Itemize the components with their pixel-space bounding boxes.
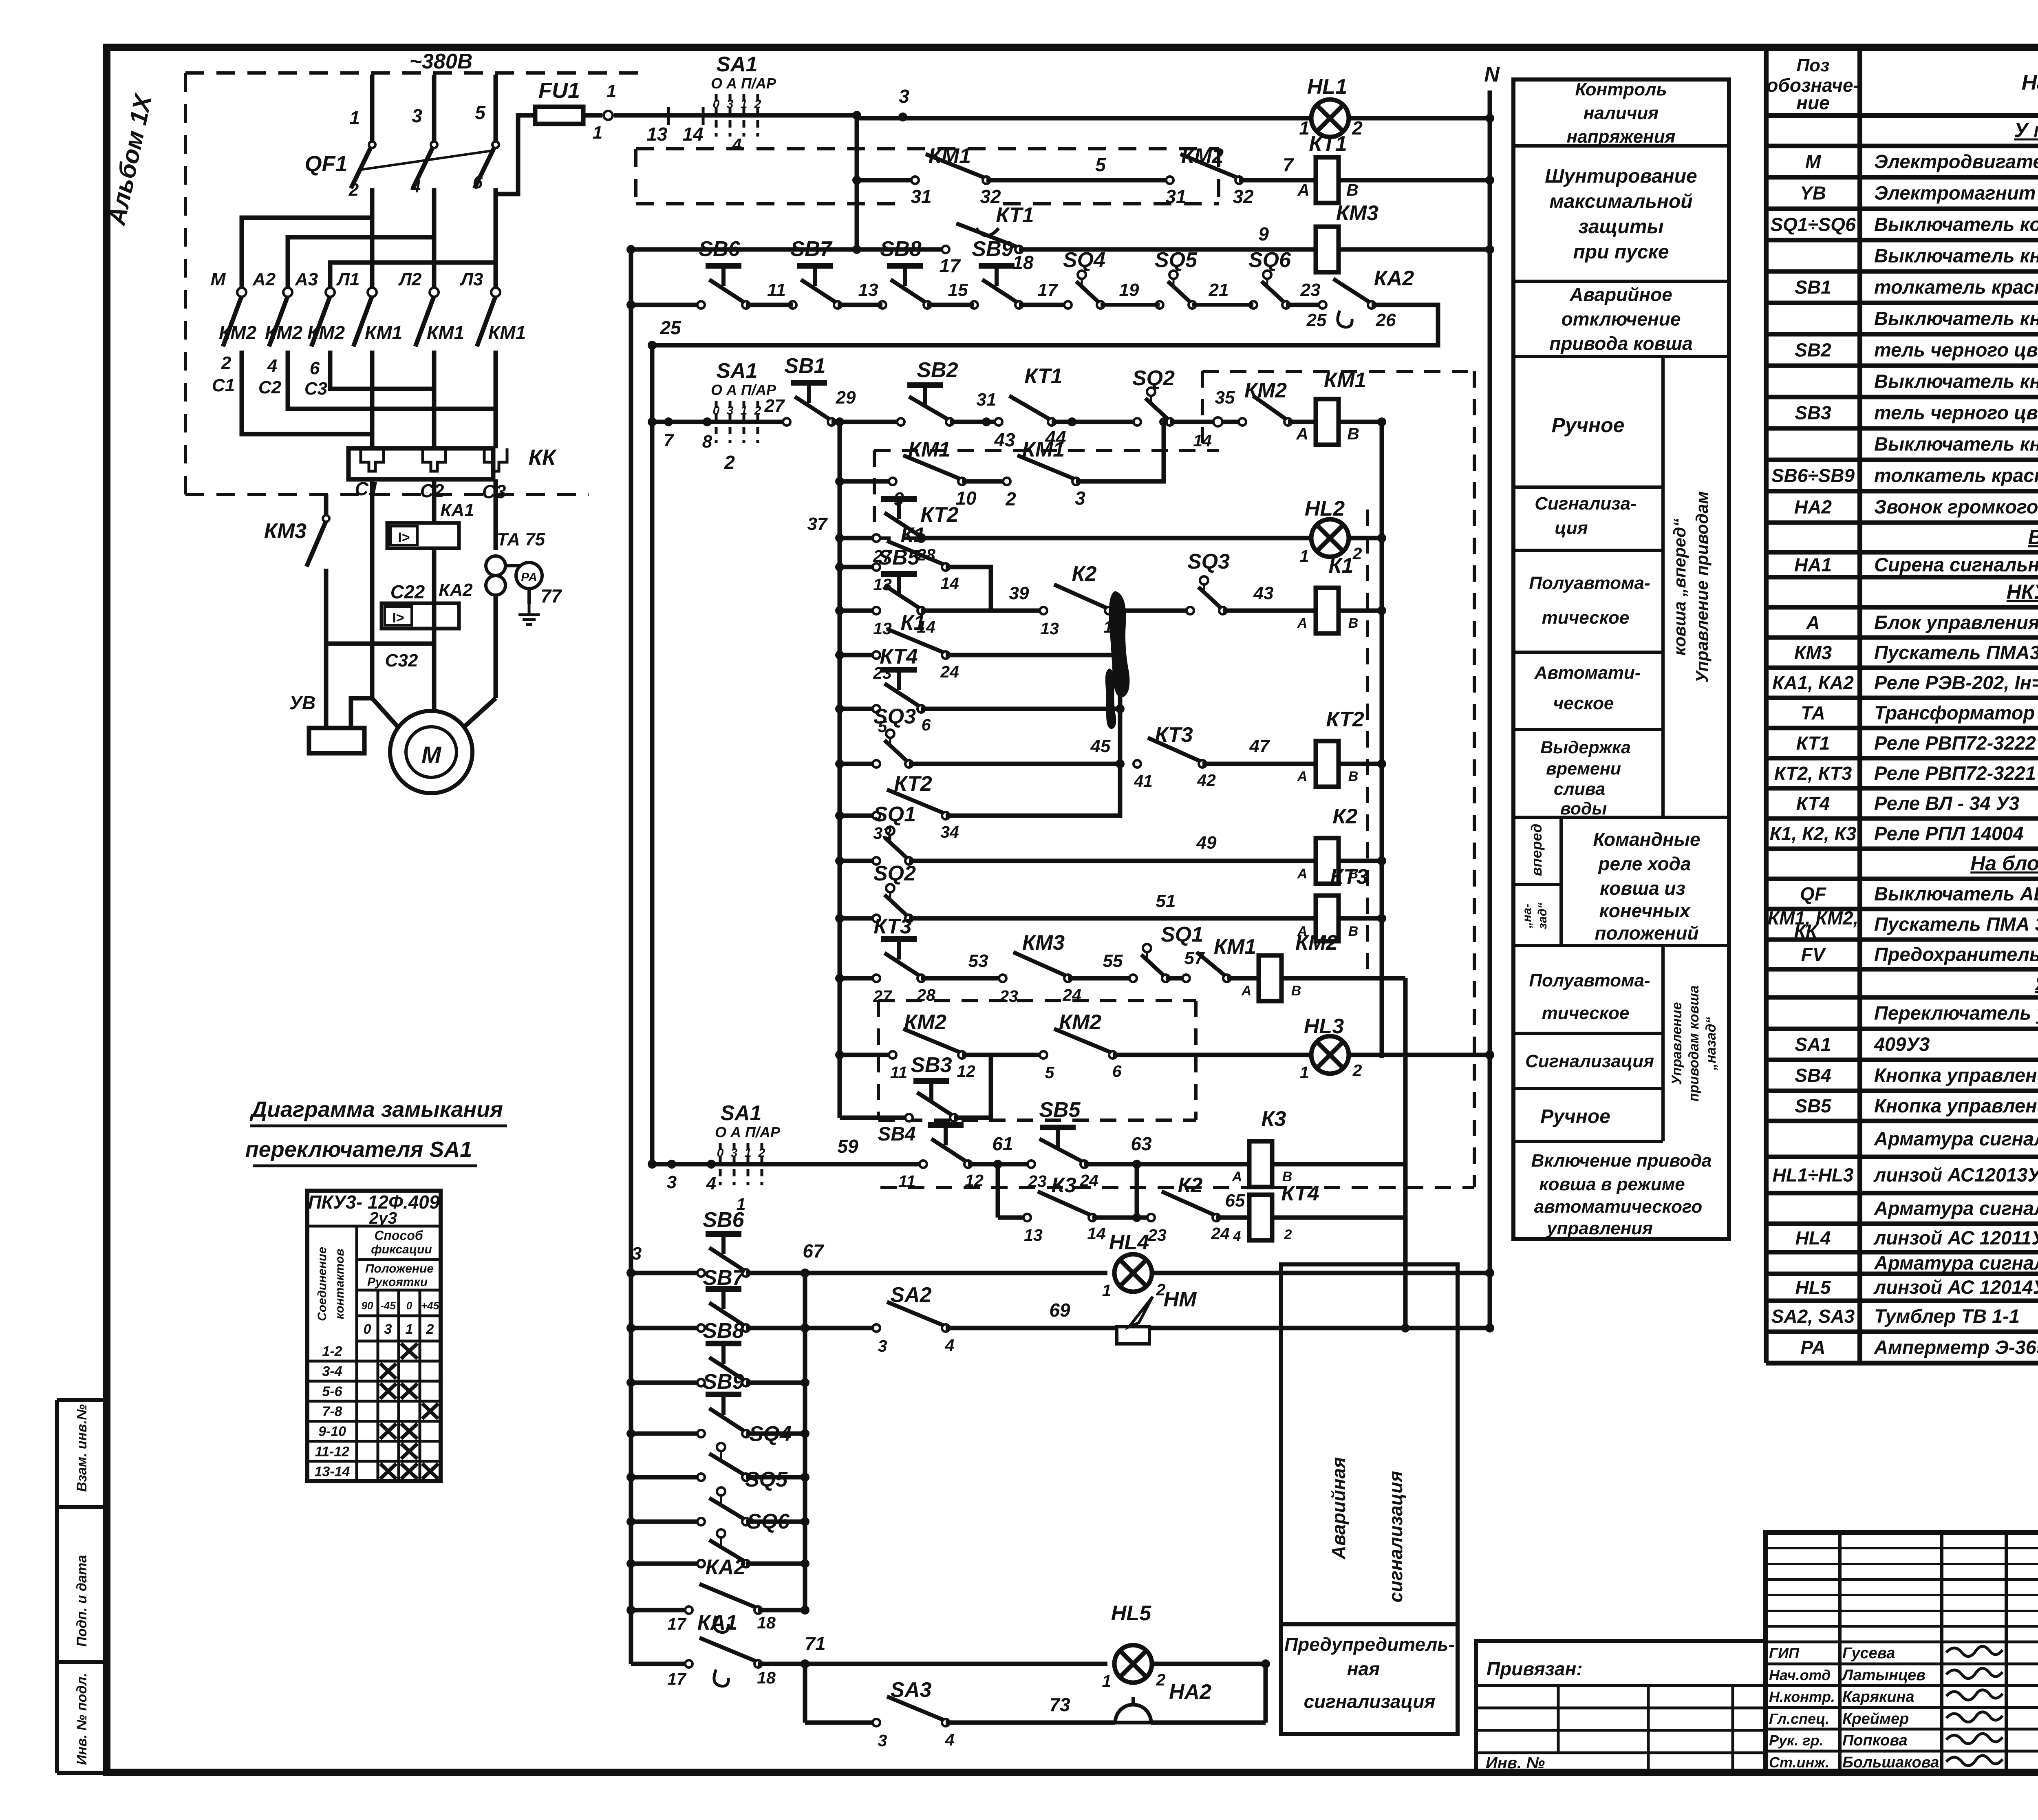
svg-text:О А П/АР: О А П/АР <box>715 1124 781 1141</box>
svg-text:4: 4 <box>267 356 277 376</box>
svg-text:приводам ковша: приводам ковша <box>1686 986 1702 1102</box>
svg-text:18: 18 <box>1012 252 1034 273</box>
svg-text:HL1÷HL3: HL1÷HL3 <box>1772 1165 1853 1186</box>
svg-text:SQ5: SQ5 <box>745 1468 788 1491</box>
svg-text:А: А <box>1297 769 1308 784</box>
svg-text:FV: FV <box>1801 944 1826 965</box>
svg-text:слива: слива <box>1554 779 1605 799</box>
svg-text:1: 1 <box>349 107 360 128</box>
alarm box predupreditelnaya <box>1281 1624 1458 1734</box>
svg-text:6: 6 <box>922 715 931 734</box>
svg-text:0: 0 <box>406 1299 412 1312</box>
svg-text:23: 23 <box>1300 280 1321 300</box>
svg-text:КТ2, КТ3: КТ2, КТ3 <box>1774 763 1852 784</box>
svg-text:51: 51 <box>1156 891 1176 911</box>
svg-text:линзой АС 12011У2: линзой АС 12011У2 <box>1873 1227 2038 1249</box>
svg-text:3: 3 <box>632 1244 642 1264</box>
svg-text:SQ2: SQ2 <box>1132 366 1175 390</box>
rung HL5: KA1 contact <box>631 1662 689 1666</box>
manual control rung: SA1 SB1 SB2 KT1 SQ2 KM2 -> KM1 coil <box>652 420 787 424</box>
svg-text:11: 11 <box>890 1063 908 1082</box>
svg-text:SQ1: SQ1 <box>873 803 916 826</box>
svg-text:КМ1: КМ1 <box>427 322 464 343</box>
svg-text:Предохранитель ППТ-10У3: Предохранитель ППТ-10У3 <box>1874 944 2038 965</box>
svg-text:N: N <box>1484 63 1500 86</box>
svg-text:2: 2 <box>426 1321 434 1337</box>
svg-text:Л1: Л1 <box>336 269 360 289</box>
SA1 closure table <box>307 1191 441 1481</box>
svg-text:7: 7 <box>1283 154 1294 175</box>
svg-text:17: 17 <box>1038 280 1059 300</box>
svg-text:Латынцев: Латынцев <box>1841 1667 1926 1684</box>
svg-text:КА2: КА2 <box>706 1555 746 1579</box>
svg-text:КТ1: КТ1 <box>1309 132 1347 156</box>
svg-text:КА1: КА1 <box>440 500 474 520</box>
relay contact KA2 self-hold <box>1318 300 1327 309</box>
svg-text:69: 69 <box>1049 1299 1070 1321</box>
svg-text:0: 0 <box>717 1146 724 1160</box>
selector SA1 contacts on top line <box>715 94 718 137</box>
svg-text:сигнализация: сигнализация <box>1385 1471 1406 1603</box>
parts table header <box>1766 113 2038 118</box>
svg-text:6: 6 <box>1112 1062 1122 1081</box>
rotated label upravlenie nazad <box>1661 946 1665 1141</box>
toggle switch SA2 <box>873 1324 880 1332</box>
svg-text:Соединение: Соединение <box>315 1247 329 1321</box>
svg-text:Сигнализация: Сигнализация <box>1525 1051 1654 1071</box>
svg-text:SQ5: SQ5 <box>1155 248 1198 272</box>
circuit breaker QF1 <box>351 145 372 188</box>
rung SB3 <box>840 1116 909 1120</box>
svg-text:4: 4 <box>945 1336 955 1355</box>
svg-text:К1: К1 <box>1329 554 1354 578</box>
svg-text:Арматура сигнальная с зе: Арматура сигнальная с зеленой <box>1874 1128 2038 1149</box>
svg-text:Реле РВП72-3222 -00У4: Реле РВП72-3222 -00У4 <box>1874 732 2038 754</box>
phase bus stubs L1 L2 L3 <box>370 75 375 145</box>
svg-text:А: А <box>1297 181 1310 199</box>
rung KT2 contact 33-34 <box>840 814 876 818</box>
svg-text:25: 25 <box>1306 310 1327 330</box>
svg-text:К3: К3 <box>1262 1107 1286 1131</box>
svg-text:В: В <box>1348 615 1359 631</box>
svg-text:4: 4 <box>706 1174 716 1193</box>
svg-text:27: 27 <box>764 396 785 416</box>
current relay KA2 coil C22 <box>382 603 459 629</box>
svg-text:14: 14 <box>1087 1224 1106 1243</box>
svg-text:SB6: SB6 <box>699 237 740 261</box>
svg-text:SQ4: SQ4 <box>749 1422 792 1446</box>
rung KA2 contact <box>631 1608 689 1613</box>
svg-text:1: 1 <box>1299 117 1310 139</box>
svg-text:67: 67 <box>803 1240 825 1262</box>
svg-text:77: 77 <box>540 585 562 607</box>
svg-text:КМ1: КМ1 <box>488 322 526 343</box>
svg-text:9: 9 <box>1258 223 1269 245</box>
svg-text:зад“: зад“ <box>1536 902 1549 929</box>
svg-text:КА2: КА2 <box>1374 267 1414 290</box>
svg-text:А3: А3 <box>295 269 318 289</box>
svg-text:3: 3 <box>412 105 422 126</box>
self hold rung KM1 contacts 9-10 2-3 <box>838 422 842 1118</box>
svg-text:контактов: контактов <box>333 1249 346 1319</box>
svg-text:I>: I> <box>398 530 410 545</box>
svg-text:Управление: Управление <box>1669 1002 1685 1085</box>
rung SQ5 <box>631 1520 701 1524</box>
svg-text:линзой АС12013У2: линзой АС12013У2 <box>1873 1164 2038 1186</box>
rung K1 contact 23-24 <box>840 653 876 657</box>
svg-text:при пуске: при пуске <box>1573 241 1669 263</box>
cell avariynoe otklyuchenie <box>1513 355 1729 358</box>
svg-text:27: 27 <box>873 987 893 1006</box>
svg-text:5-6: 5-6 <box>322 1384 342 1399</box>
svg-text:Командные: Командные <box>1593 829 1700 850</box>
motor M <box>390 711 472 793</box>
svg-text:2: 2 <box>1284 1227 1292 1242</box>
svg-text:ческое: ческое <box>1553 693 1614 713</box>
node 3 <box>898 113 907 121</box>
svg-text:Арматура сигнальная с кра: Арматура сигнальная с красной <box>1874 1198 2038 1219</box>
svg-text:КТ3: КТ3 <box>1155 723 1193 747</box>
svg-text:Положение: Положение <box>365 1262 434 1275</box>
svg-text:19: 19 <box>1119 280 1139 300</box>
svg-text:Реле ВЛ - 34 У3: Реле ВЛ - 34 У3 <box>1874 792 2020 814</box>
svg-text:3: 3 <box>878 1731 887 1750</box>
svg-text:В: В <box>1348 769 1359 784</box>
svg-text:HL5: HL5 <box>1111 1602 1151 1625</box>
svg-text:HL5: HL5 <box>1795 1277 1831 1298</box>
svg-text:SB6: SB6 <box>703 1208 744 1232</box>
svg-text:HL3: HL3 <box>1304 1015 1344 1038</box>
svg-text:Звонок громкого боя МЗ-1: Звонок громкого боя МЗ-1 <box>1874 496 2038 518</box>
svg-text:К1: К1 <box>901 523 926 547</box>
svg-text:К2: К2 <box>1178 1174 1203 1197</box>
svg-text:39: 39 <box>1009 583 1029 603</box>
rung HL3: KM2 contacts <box>840 1053 893 1057</box>
cell kontrol napryazheniya <box>1513 144 1729 148</box>
svg-text:5: 5 <box>1045 1063 1055 1082</box>
svg-text:2: 2 <box>221 353 232 373</box>
N rail <box>1488 90 1492 1328</box>
svg-text:13: 13 <box>1040 619 1059 638</box>
svg-text:HL4: HL4 <box>1109 1231 1149 1254</box>
svg-text:11-12: 11-12 <box>315 1444 350 1459</box>
svg-text:49: 49 <box>1196 833 1217 853</box>
svg-text:SB9: SB9 <box>972 237 1013 261</box>
svg-text:23: 23 <box>1147 1226 1167 1244</box>
svg-text:3: 3 <box>384 1321 392 1337</box>
svg-text:Ящик S1: Ящик S1 <box>2034 972 2038 995</box>
svg-text:КА1: КА1 <box>697 1611 737 1635</box>
svg-text:„на-: „на- <box>1520 904 1534 929</box>
svg-text:3: 3 <box>731 1146 738 1160</box>
svg-text:SA2: SA2 <box>890 1283 931 1307</box>
svg-text:КА1, КА2: КА1, КА2 <box>1772 672 1854 693</box>
coil return bus <box>1380 422 1384 1058</box>
svg-text:0: 0 <box>713 97 720 111</box>
svg-text:SQ2: SQ2 <box>873 862 916 885</box>
svg-text:А2: А2 <box>252 269 276 289</box>
svg-text:2: 2 <box>1005 488 1016 510</box>
svg-text:Гл.спец.: Гл.спец. <box>1769 1710 1829 1727</box>
svg-text:С3: С3 <box>304 379 327 399</box>
svg-text:наличия: наличия <box>1584 103 1659 123</box>
svg-text:К3: К3 <box>1052 1174 1076 1197</box>
privyazan box <box>1476 1641 1766 1773</box>
svg-text:29: 29 <box>836 388 856 408</box>
svg-text:ние: ние <box>1796 92 1829 113</box>
svg-text:1: 1 <box>1102 1672 1112 1690</box>
rung K2 coil: SQ1 <box>840 859 876 863</box>
svg-text:QF1: QF1 <box>304 152 347 176</box>
svg-text:линзой АС 12014У2: линзой АС 12014У2 <box>1873 1276 2038 1298</box>
svg-text:КТ1: КТ1 <box>1024 364 1062 388</box>
svg-text:SВ5: SВ5 <box>1795 1095 1832 1116</box>
svg-text:КМ2: КМ2 <box>219 322 257 343</box>
svg-text:Сирена сигнальная: Сирена сигнальная <box>1874 554 2038 576</box>
svg-text:2: 2 <box>758 1146 765 1160</box>
svg-text:1: 1 <box>1300 547 1309 565</box>
svg-text:Переключатель универсальный: Переключатель универсальный ПКУ3-12Ф <box>1874 1002 2038 1024</box>
svg-text:КТ1: КТ1 <box>996 203 1034 227</box>
svg-text:положений: положений <box>1595 922 1698 944</box>
svg-text:времени: времени <box>1546 759 1621 779</box>
cell avtomaticheskoe <box>1513 728 1663 731</box>
svg-text:37: 37 <box>807 514 828 534</box>
svg-text:КТ4: КТ4 <box>880 645 918 668</box>
svg-text:~380В: ~380В <box>410 50 473 73</box>
parts table rows <box>1766 144 2038 148</box>
brake solenoid YB <box>309 728 364 753</box>
svg-text:Выключатель кнопочный КЕ011,: Выключатель кнопочный КЕ011, исп.2, толк… <box>1874 371 2038 392</box>
current transformer TA 75 <box>486 556 505 576</box>
svg-text:М: М <box>421 742 442 768</box>
svg-text:защиты: защиты <box>1578 216 1663 238</box>
top supply line 1-3-N <box>614 113 857 118</box>
svg-text:SА2, SА3: SА2, SА3 <box>1771 1306 1855 1327</box>
svg-text:SB5: SB5 <box>1039 1098 1081 1122</box>
svg-text:ковша „вперед“: ковша „вперед“ <box>1670 518 1689 656</box>
svg-text:вперед: вперед <box>1528 824 1545 876</box>
cell signalizaciya 1 <box>1513 549 1663 552</box>
svg-text:409У3: 409У3 <box>1874 1033 1930 1055</box>
svg-text:тическое: тическое <box>1542 1003 1630 1023</box>
svg-text:сигнализация: сигнализация <box>1304 1691 1436 1712</box>
svg-text:ная: ная <box>1347 1658 1380 1679</box>
svg-text:24: 24 <box>1211 1224 1230 1243</box>
svg-text:КМ2: КМ2 <box>1059 1010 1101 1034</box>
svg-text:Диаграмма замыкания: Диаграмма замыкания <box>249 1097 503 1122</box>
svg-text:21: 21 <box>1209 280 1229 300</box>
svg-text:Подп. и дата: Подп. и дата <box>74 1555 90 1647</box>
svg-text:SQ1÷SQ6: SQ1÷SQ6 <box>1770 214 1856 235</box>
svg-text:А: А <box>1806 612 1820 633</box>
svg-text:SB3: SB3 <box>911 1053 952 1077</box>
svg-text:90: 90 <box>362 1299 373 1312</box>
svg-text:Реле РПЛ 14004: Реле РПЛ 14004 <box>1874 823 2023 844</box>
svg-text:13-14: 13-14 <box>315 1464 350 1479</box>
rung KA2: stop chain SB6-SB9 SQ4-SQ6 <box>631 303 701 307</box>
svg-text:2: 2 <box>1352 1061 1362 1080</box>
svg-text:КМ2: КМ2 <box>1181 144 1224 168</box>
svg-text:3: 3 <box>878 1337 887 1355</box>
svg-text:Шунтирование: Шунтирование <box>1545 165 1697 187</box>
ground for ammeter circuit <box>528 604 531 615</box>
svg-text:I>: I> <box>392 610 404 626</box>
svg-text:Предупредитель-: Предупредитель- <box>1284 1634 1455 1655</box>
svg-text:7-8: 7-8 <box>322 1404 342 1419</box>
svg-text:конечных: конечных <box>1599 900 1691 921</box>
rung KT1 coil: KM1 KM2 aux contacts <box>857 178 915 183</box>
svg-text:Арматура сигнальная с желт: Арматура сигнальная с желтой <box>1874 1252 2038 1274</box>
svg-text:Полуавтома-: Полуавтома- <box>1529 573 1650 593</box>
rung KM3 coil: KT1 time contact <box>631 247 946 252</box>
svg-text:Рукоятки: Рукоятки <box>367 1275 428 1289</box>
toggle switch SA3 <box>873 1719 880 1726</box>
svg-text:Рук. гр.: Рук. гр. <box>1769 1732 1824 1749</box>
svg-text:12: 12 <box>957 1062 975 1081</box>
svg-text:С32: С32 <box>385 651 418 671</box>
svg-text:С2: С2 <box>258 377 282 397</box>
svg-text:„назад“: „назад“ <box>1703 1017 1719 1071</box>
svg-text:На блоке управления: На блоке управления <box>1970 852 2038 875</box>
rung KM2 coil: KT3 KM3 SQ1 KM1 <box>840 976 876 981</box>
svg-text:Аварийное: Аварийное <box>1569 284 1672 305</box>
svg-text:SB5: SB5 <box>878 546 920 569</box>
rung K3 coil: SA1 SB4 SB5 <box>652 1162 787 1167</box>
cell ruchnoe 2 <box>1513 1140 1663 1143</box>
svg-text:Поз: Поз <box>1797 55 1830 75</box>
svg-text:1: 1 <box>745 1146 752 1160</box>
svg-text:SQ3: SQ3 <box>873 705 916 728</box>
svg-text:КТ3: КТ3 <box>1330 865 1368 889</box>
svg-text:максимальной: максимальной <box>1549 191 1692 212</box>
svg-text:SB7: SB7 <box>790 237 832 261</box>
svg-text:17: 17 <box>667 1615 687 1633</box>
svg-text:3: 3 <box>899 86 909 107</box>
svg-text:Выключатель кнопочный КЕ 08: Выключатель кнопочный КЕ 081 исп.2, <box>1874 245 2038 267</box>
svg-text:Амперметр Э-365-1: Амперметр Э-365-1 <box>1874 1337 2038 1358</box>
svg-text:КА2: КА2 <box>439 580 473 600</box>
svg-text:43: 43 <box>994 429 1015 450</box>
svg-text:SB7: SB7 <box>703 1266 745 1290</box>
svg-text:35: 35 <box>1215 388 1235 408</box>
svg-text:РА: РА <box>521 571 537 584</box>
parts table frame <box>1764 48 1769 1363</box>
svg-text:А: А <box>1232 1169 1242 1185</box>
svg-text:24: 24 <box>940 662 959 681</box>
svg-text:КМ1: КМ1 <box>929 144 971 168</box>
svg-text:SВ2: SВ2 <box>1795 340 1831 361</box>
svg-text:59: 59 <box>837 1136 858 1157</box>
svg-text:18: 18 <box>757 1613 776 1632</box>
svg-text:2: 2 <box>348 180 359 200</box>
svg-text:4: 4 <box>732 135 742 154</box>
svg-text:К2: К2 <box>1072 562 1097 586</box>
svg-text:Л2: Л2 <box>398 269 422 289</box>
svg-text:17: 17 <box>939 255 961 276</box>
svg-text:В: В <box>1346 181 1359 199</box>
rung HA2: SA3 <box>803 1664 807 1723</box>
svg-text:А: А <box>1241 983 1252 999</box>
svg-text:КТ4: КТ4 <box>1796 793 1830 814</box>
svg-text:Сигнализа-: Сигнализа- <box>1535 494 1637 514</box>
crossover jumpers upper <box>242 218 372 292</box>
svg-text:Полуавтома-: Полуавтома- <box>1529 971 1650 991</box>
svg-text:А: А <box>1297 866 1308 882</box>
svg-text:М: М <box>211 269 226 289</box>
motor phase wires <box>370 479 375 698</box>
svg-text:23: 23 <box>999 987 1018 1006</box>
svg-text:13: 13 <box>1024 1226 1043 1244</box>
line ticks 13 14 <box>667 107 670 125</box>
cell ruchnoe 1 <box>1513 485 1663 489</box>
svg-text:25: 25 <box>659 317 682 338</box>
rung HL4: SB6 <box>631 1271 701 1275</box>
svg-text:КТ1: КТ1 <box>1796 732 1830 754</box>
svg-text:14: 14 <box>682 124 703 145</box>
svg-text:управления: управления <box>1546 1218 1653 1238</box>
right collector <box>1264 1664 1268 1723</box>
title block left grid <box>1838 1533 1842 1773</box>
svg-text:41: 41 <box>1134 772 1153 790</box>
svg-text:Креймер: Креймер <box>1842 1710 1909 1727</box>
svg-text:SQ6: SQ6 <box>747 1510 790 1533</box>
svg-text:SA3: SA3 <box>890 1678 931 1702</box>
svg-text:63: 63 <box>1131 1133 1152 1154</box>
svg-text:1: 1 <box>741 404 748 417</box>
svg-text:КМ3: КМ3 <box>264 519 307 543</box>
svg-text:НА2: НА2 <box>1794 496 1832 518</box>
left rail <box>629 249 633 1664</box>
svg-text:SB9: SB9 <box>703 1370 744 1394</box>
rung SQ6 <box>631 1562 701 1566</box>
svg-text:Автомати-: Автомати- <box>1534 663 1641 683</box>
svg-text:5: 5 <box>1095 154 1106 175</box>
svg-text:-45: -45 <box>380 1299 396 1312</box>
svg-text:3-4: 3-4 <box>322 1364 342 1379</box>
svg-text:НКУ- Щит БЩ: НКУ- Щит БЩ <box>2007 580 2038 603</box>
svg-text:Ст.инж.: Ст.инж. <box>1769 1754 1829 1771</box>
svg-text:4: 4 <box>945 1730 955 1749</box>
svg-text:71: 71 <box>805 1633 825 1654</box>
svg-text:FU1: FU1 <box>538 78 580 103</box>
thermal relay KK <box>348 448 493 479</box>
svg-text:толкатель красного цвета, н: толкатель красного цвета, надпись„Стоп“ <box>1874 465 2038 486</box>
svg-text:SA1: SA1 <box>716 359 757 383</box>
svg-text:2: 2 <box>754 404 761 417</box>
wire QF1 to fuse FU1 <box>496 115 535 194</box>
svg-text:Реле РЭВ-202, Iн=32А; Iвт=1,: Реле РЭВ-202, Iн=32А; Iвт=1,1÷3,5Iн <box>1874 672 2038 693</box>
svg-text:Кнопка управления КЕ 011У: Кнопка управления КЕ 011У3, исп.4 <box>1874 1095 2038 1116</box>
scan ink smudge <box>1109 591 1130 697</box>
svg-text:HL2: HL2 <box>1305 497 1345 521</box>
svg-text:напряжения: напряжения <box>1567 127 1676 147</box>
svg-text:2: 2 <box>1156 1670 1166 1689</box>
shunt dashed box <box>636 147 1219 150</box>
svg-text:КТ4: КТ4 <box>1281 1182 1319 1205</box>
svg-text:7: 7 <box>664 430 675 450</box>
svg-text:31: 31 <box>911 186 931 207</box>
rung KT3 coil: SQ2 <box>840 916 876 921</box>
collector for stop chain <box>803 1273 807 1610</box>
svg-text:РА: РА <box>1800 1337 1825 1358</box>
cell signalizaciya 2 <box>1513 1087 1663 1090</box>
svg-text:10: 10 <box>955 488 977 509</box>
svg-text:3: 3 <box>727 404 734 417</box>
svg-text:2: 2 <box>754 97 761 111</box>
svg-text:18: 18 <box>757 1668 776 1687</box>
cell vyderzhka vremeni <box>1513 816 1729 819</box>
